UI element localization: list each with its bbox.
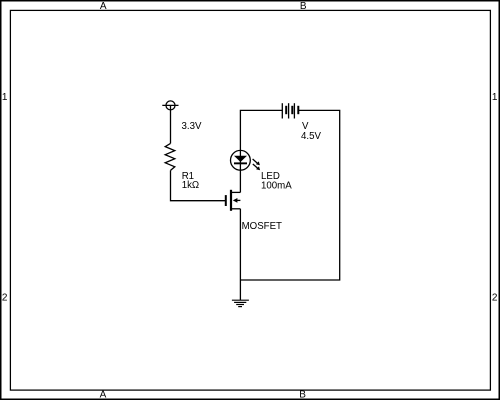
transistor Q1 MOSFET [226, 190, 241, 211]
wire LED top to battery [240, 110, 282, 150]
wire drain up to top node [239, 170, 241, 192]
svg-text:B: B [300, 1, 307, 12]
svg-text:2: 2 [492, 292, 498, 303]
svg-text:1: 1 [2, 92, 8, 103]
svg-text:4.5V: 4.5V [301, 131, 321, 142]
voltage node V1 3.3V symbol [162, 101, 178, 143]
svg-text:1kΩ: 1kΩ [182, 180, 199, 191]
battery V 4.5V [282, 103, 298, 118]
svg-text:100mA: 100mA [261, 181, 292, 192]
wire source down to ground [239, 209, 241, 300]
wire resistor to gate corner [171, 170, 226, 200]
svg-text:2: 2 [2, 292, 8, 303]
svg-text:B: B [299, 390, 306, 400]
svg-text:1: 1 [492, 92, 498, 103]
wire battery to right side down to bottom [240, 110, 339, 280]
resistor R1 zigzag [165, 143, 175, 170]
svg-text:A: A [100, 1, 107, 12]
svg-text:3.3V: 3.3V [182, 121, 202, 132]
ground symbol [232, 300, 249, 306]
svg-text:A: A [100, 390, 107, 400]
svg-text:MOSFET: MOSFET [242, 221, 282, 232]
LED D1 [231, 150, 261, 170]
